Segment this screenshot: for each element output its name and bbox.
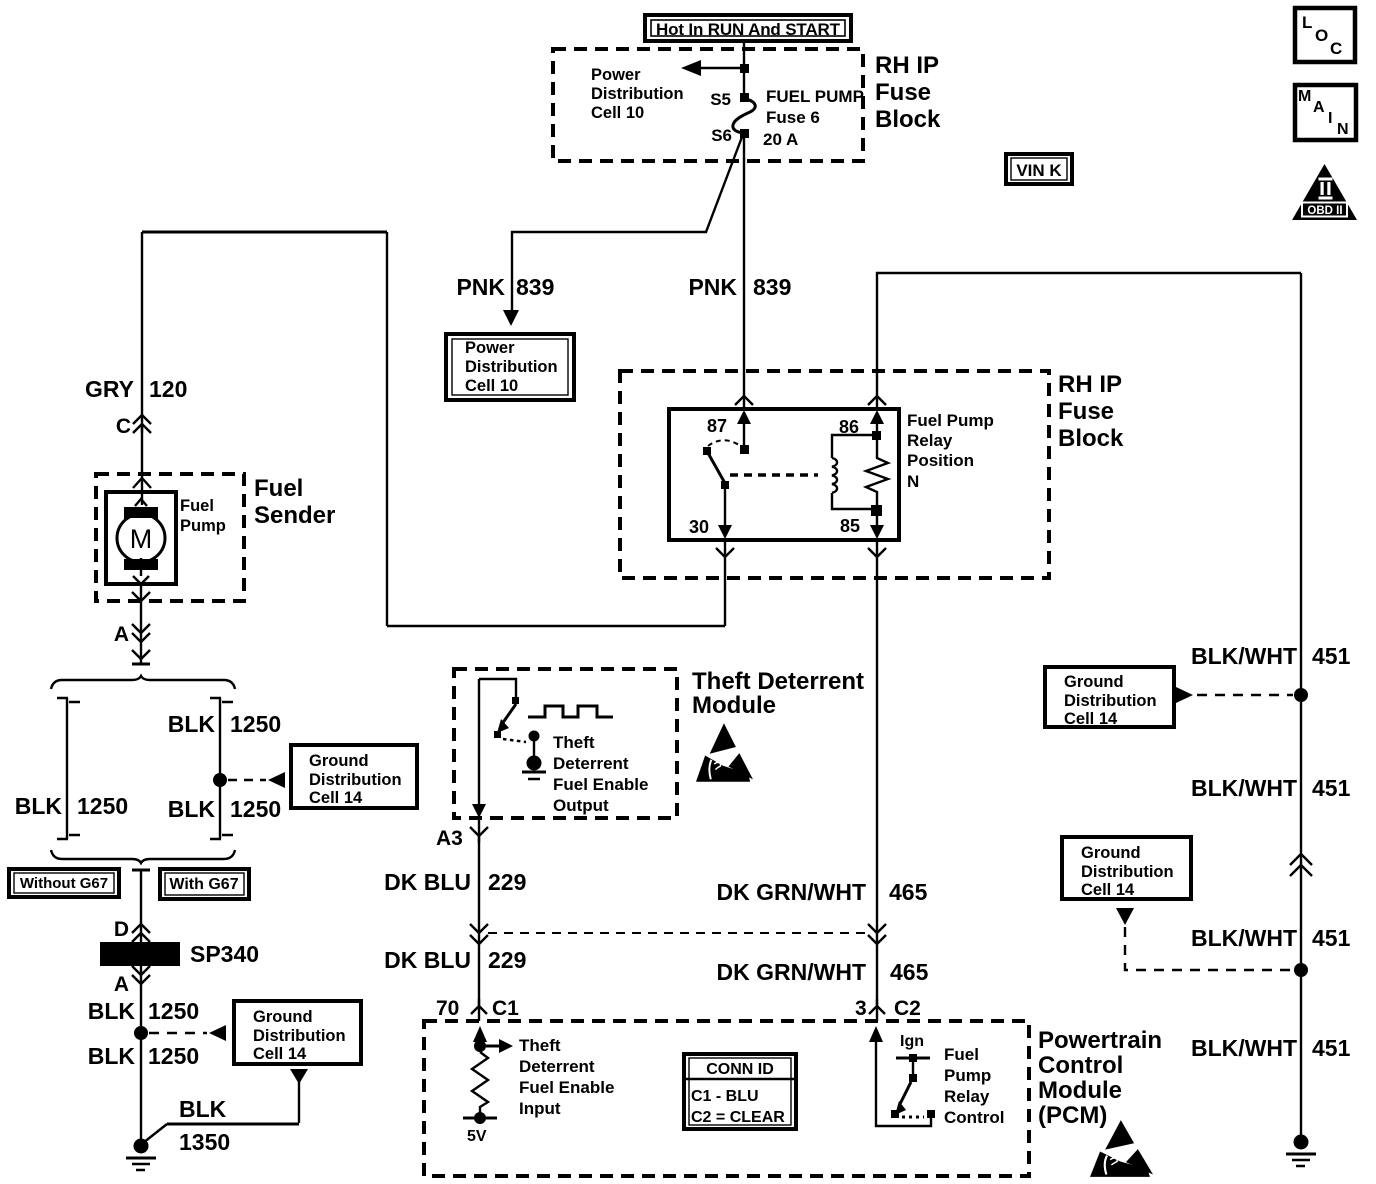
wire BLK 1250 to ground xyxy=(140,966,142,1143)
svg-text:BLK: BLK xyxy=(88,998,136,1024)
svg-text:BLK/WHT: BLK/WHT xyxy=(1191,775,1297,801)
svg-text:S6: S6 xyxy=(711,126,732,145)
fuel sender dashed box xyxy=(96,474,244,601)
label Powertrain Control Module (PCM) xyxy=(1038,1027,1162,1129)
wire from relay 30 to fuel pump (down, across) xyxy=(387,232,725,626)
svg-text:Module: Module xyxy=(1038,1077,1122,1104)
svg-text:1250: 1250 xyxy=(230,711,281,737)
svg-text:N: N xyxy=(1337,121,1349,138)
connector chevron into fuel sender xyxy=(133,478,151,488)
svg-text:DK GRN/WHT: DK GRN/WHT xyxy=(717,959,866,985)
svg-text:Fuel: Fuel xyxy=(254,475,303,502)
svg-text:PNK: PNK xyxy=(688,274,737,300)
svg-text:229: 229 xyxy=(488,947,526,973)
label BLK 1250 (right top) xyxy=(168,711,281,737)
label DK GRN/WHT 465 (upper) xyxy=(717,879,928,905)
wire fuel pump ground lead xyxy=(140,584,142,660)
relay mechanical link (dashed) xyxy=(730,473,818,477)
svg-text:C1 - BLU: C1 - BLU xyxy=(691,1088,759,1105)
label PNK 839 (left) xyxy=(456,274,554,300)
svg-text:1250: 1250 xyxy=(230,796,281,822)
svg-text:Cell 14: Cell 14 xyxy=(253,1045,307,1063)
reference box Ground Distribution Cell 14 (right upper) xyxy=(1045,667,1174,728)
theft deterrent output switch xyxy=(479,679,546,779)
option box Without G67 xyxy=(9,869,119,897)
ground G401 (left) xyxy=(126,1139,156,1171)
label Theft Deterrent Fuel Enable Input xyxy=(519,1036,614,1118)
svg-text:Fuel Pump: Fuel Pump xyxy=(907,411,994,430)
svg-text:BLK: BLK xyxy=(179,1096,227,1122)
label BLK/WHT 451 (4) xyxy=(1191,1035,1351,1061)
svg-text:Fuse: Fuse xyxy=(1058,398,1114,425)
svg-text:Pump: Pump xyxy=(180,517,226,535)
svg-text:A3: A3 xyxy=(436,827,463,850)
icon LOC xyxy=(1295,8,1355,62)
svg-text:BLK/WHT: BLK/WHT xyxy=(1191,1035,1297,1061)
svg-text:1250: 1250 xyxy=(148,998,199,1024)
connector C xyxy=(116,415,151,438)
box VIN K xyxy=(1006,154,1072,184)
label BLK/WHT 451 (3) xyxy=(1191,925,1351,951)
label Theft Deterrent Fuel Enable Output xyxy=(553,733,648,815)
svg-text:1250: 1250 xyxy=(77,793,128,819)
svg-text:Distribution: Distribution xyxy=(1064,692,1157,710)
label RH IP Fuse Block (relay) xyxy=(1058,371,1124,452)
svg-text:Relay: Relay xyxy=(944,1087,990,1106)
svg-text:DK BLU: DK BLU xyxy=(384,869,471,895)
alternative wire bracket bottom xyxy=(51,850,235,870)
relay coil xyxy=(832,435,877,509)
svg-text:Relay: Relay xyxy=(907,431,953,450)
off-page dashed link to Ground Distribution Cell 14 (right upper) xyxy=(1176,687,1293,703)
wire BLK 1350 from Cell 14 box xyxy=(143,1069,308,1143)
svg-text:O: O xyxy=(1315,26,1328,45)
option box With G67 xyxy=(160,869,249,899)
svg-text:1350: 1350 xyxy=(179,1129,230,1155)
svg-text:Distribution: Distribution xyxy=(591,85,684,103)
svg-text:Position: Position xyxy=(907,451,974,470)
label BLK 1250 (left) xyxy=(15,793,128,819)
svg-text:Hot In RUN And START: Hot In RUN And START xyxy=(656,20,841,39)
label GRY 120 xyxy=(85,376,187,402)
splice S5 xyxy=(710,90,749,109)
wire BLK/WHT 451 right column xyxy=(1300,273,1302,1142)
svg-text:FUEL PUMP: FUEL PUMP xyxy=(766,87,864,106)
relay pin 30 xyxy=(689,481,732,539)
svg-text:Distribution: Distribution xyxy=(253,1027,346,1045)
wire top-left horizontal (relay 30 feed to fuel pump) xyxy=(142,231,387,234)
svg-text:451: 451 xyxy=(1312,1035,1351,1061)
icon OBD II triangle xyxy=(1292,164,1357,220)
svg-text:BLK: BLK xyxy=(168,796,216,822)
ESD logo (PCM) xyxy=(1090,1120,1153,1177)
svg-text:DK GRN/WHT: DK GRN/WHT xyxy=(717,879,866,905)
svg-text:229: 229 xyxy=(488,869,526,895)
title box Hot In RUN And START xyxy=(645,15,851,41)
svg-text:Cell 14: Cell 14 xyxy=(309,789,363,807)
connector chevron relay 87 top xyxy=(735,396,753,405)
svg-text:RH IP: RH IP xyxy=(1058,371,1122,398)
svg-text:1250: 1250 xyxy=(148,1043,199,1069)
svg-text:Sender: Sender xyxy=(254,502,335,529)
label Theft Deterrent Module xyxy=(692,668,864,719)
connector pin 70 C1 xyxy=(436,997,519,1020)
svg-text:451: 451 xyxy=(1312,775,1351,801)
label BLK 1250 (below junction) xyxy=(88,1043,199,1069)
label BLK 1350 xyxy=(179,1096,230,1155)
wire PNK 839 (fuse to relay 87) xyxy=(743,133,745,408)
svg-text:120: 120 xyxy=(149,376,187,402)
svg-text:Fuse 6: Fuse 6 xyxy=(766,108,820,127)
label BLK 1250 (above junction) xyxy=(88,998,199,1024)
PCM theft deterrent input circuit xyxy=(463,1026,513,1145)
connector A (below SP340) xyxy=(114,966,150,996)
svg-text:Theft: Theft xyxy=(553,733,595,752)
theft deterrent module dashed box xyxy=(454,669,677,818)
fuse F6 FUEL PUMP 20 A xyxy=(733,87,864,149)
svg-text:Fuel Enable: Fuel Enable xyxy=(553,775,648,794)
svg-text:839: 839 xyxy=(753,274,791,300)
relay coil resistor xyxy=(866,440,888,507)
connector chevron relay 86 top xyxy=(868,396,886,405)
svg-text:Block: Block xyxy=(875,106,941,133)
svg-text:Distribution: Distribution xyxy=(309,771,402,789)
svg-text:839: 839 xyxy=(516,274,554,300)
wire left vertical GRY 120 xyxy=(141,232,143,505)
off-page dashed link to Ground Distribution Cell 14 (lower) xyxy=(149,1025,226,1041)
connector pin 3 C2 xyxy=(855,997,921,1020)
CONN ID box xyxy=(684,1054,796,1129)
label BLK/WHT 451 (2) xyxy=(1191,775,1351,801)
svg-text:C2 = CLEAR: C2 = CLEAR xyxy=(691,1109,785,1126)
relay pin 85 xyxy=(840,505,884,539)
label RH IP Fuse Block (top) xyxy=(875,52,941,133)
svg-text:3: 3 xyxy=(855,997,867,1020)
svg-text:GRY: GRY xyxy=(85,376,134,402)
fuel pump motor M xyxy=(106,492,226,584)
connector chevron out of fuel sender xyxy=(132,592,150,601)
label Power Distribution Cell 10 (inside fuse block) xyxy=(591,66,684,122)
svg-text:Power: Power xyxy=(591,66,641,84)
svg-text:A: A xyxy=(1313,99,1325,116)
connector chevron relay 85 bottom xyxy=(868,548,886,557)
svg-text:BLK/WHT: BLK/WHT xyxy=(1191,925,1297,951)
svg-text:L: L xyxy=(1302,13,1312,32)
svg-text:C: C xyxy=(116,415,131,438)
svg-text:Fuel: Fuel xyxy=(944,1045,979,1064)
wire relay 86 up and across to right xyxy=(877,273,1301,409)
label Fuel Pump Relay Control xyxy=(944,1045,1004,1127)
label BLK 1250 (right bottom) xyxy=(168,796,281,822)
svg-text:Power: Power xyxy=(465,339,515,357)
svg-text:Ground: Ground xyxy=(1064,673,1124,691)
svg-text:451: 451 xyxy=(1312,643,1351,669)
svg-text:Output: Output xyxy=(553,796,609,815)
label DK BLU 229 (upper) xyxy=(384,869,526,895)
svg-text:Cell 14: Cell 14 xyxy=(1064,710,1118,728)
svg-text:465: 465 xyxy=(890,959,929,985)
reference box Ground Distribution Cell 14 (upper left) xyxy=(291,745,417,808)
svg-text:Module: Module xyxy=(692,692,776,719)
fuel pump relay box xyxy=(669,409,899,540)
svg-text:Fuel: Fuel xyxy=(180,497,214,515)
PCM dashed box xyxy=(424,1021,1029,1176)
svg-text:Deterrent: Deterrent xyxy=(519,1057,595,1076)
ground (right column) xyxy=(1286,1135,1316,1167)
svg-text:BLK: BLK xyxy=(15,793,63,819)
wire from brace to splice SP340 xyxy=(140,870,142,942)
svg-text:Cell 14: Cell 14 xyxy=(1081,881,1135,899)
svg-text:I: I xyxy=(1328,110,1332,127)
connector A (fuel sender) xyxy=(114,623,150,663)
connector on right column xyxy=(1290,854,1312,876)
svg-text:PNK: PNK xyxy=(456,274,505,300)
wire DK GRN/WHT 465 (relay 85 to PCM) xyxy=(876,540,878,1021)
svg-text:A: A xyxy=(114,973,129,996)
svg-text:BLK: BLK xyxy=(88,1043,136,1069)
svg-text:CONN ID: CONN ID xyxy=(706,1061,774,1078)
svg-text:VIN K: VIN K xyxy=(1016,161,1062,180)
svg-text:N: N xyxy=(907,472,919,491)
reference box Ground Distribution Cell 14 (right lower) xyxy=(1062,837,1191,899)
svg-text:Ground: Ground xyxy=(253,1008,313,1026)
PCM fuel pump relay control driver xyxy=(869,1026,935,1126)
svg-text:BLK/WHT: BLK/WHT xyxy=(1191,643,1297,669)
svg-text:S5: S5 xyxy=(710,90,731,109)
wire DK BLU 229 from TDM pin A3 xyxy=(472,679,486,1021)
junction right column (2) xyxy=(1294,963,1308,977)
svg-text:C: C xyxy=(1330,39,1342,58)
icon MAIN xyxy=(1295,85,1356,140)
svg-text:A: A xyxy=(114,623,129,646)
svg-text:Block: Block xyxy=(1058,425,1124,452)
connector D xyxy=(114,918,150,942)
svg-text:M: M xyxy=(130,524,153,554)
svg-text:5V: 5V xyxy=(467,1128,487,1145)
svg-text:RH IP: RH IP xyxy=(875,52,939,79)
svg-text:Input: Input xyxy=(519,1099,561,1118)
relay pin 87 xyxy=(707,410,751,454)
svg-text:DK BLU: DK BLU xyxy=(384,947,471,973)
off-page arrow to Power Distribution Cell 10 (left) xyxy=(681,60,749,76)
splice SP340 xyxy=(100,941,259,967)
svg-text:Fuel Enable: Fuel Enable xyxy=(519,1078,614,1097)
alternative wire bracket top xyxy=(51,664,235,689)
connector chevron relay 30 bottom xyxy=(716,548,734,557)
svg-text:Without G67: Without G67 xyxy=(20,875,108,892)
off-page dashed link from Cell 14 (right lower) xyxy=(1116,908,1293,970)
svg-text:(PCM): (PCM) xyxy=(1038,1102,1107,1129)
label BLK/WHT 451 (1) xyxy=(1191,643,1351,669)
in-line connector (dashed) between A3 and PCM xyxy=(470,924,886,944)
svg-text:SP340: SP340 xyxy=(190,941,259,967)
svg-text:70: 70 xyxy=(436,997,459,1020)
svg-text:With G67: With G67 xyxy=(169,876,238,893)
svg-text:BLK: BLK xyxy=(168,711,216,737)
svg-text:Ign: Ign xyxy=(900,1033,924,1050)
svg-text:465: 465 xyxy=(889,879,928,905)
off-page dashed link to Ground Distribution Cell 14 xyxy=(228,772,285,788)
theft deterrent enable waveform xyxy=(528,706,613,717)
svg-text:Ground: Ground xyxy=(1081,844,1141,862)
label Fuel Sender xyxy=(254,475,335,529)
reference box Power Distribution Cell 10 xyxy=(446,334,574,400)
svg-text:451: 451 xyxy=(1312,925,1351,951)
label PNK 839 (right) xyxy=(688,274,791,300)
svg-text:Pump: Pump xyxy=(944,1066,991,1085)
svg-text:OBD II: OBD II xyxy=(1307,205,1342,217)
wire BLK 1250 without G67 (left alternative) xyxy=(57,698,80,839)
svg-text:Cell 10: Cell 10 xyxy=(591,104,644,122)
splice S6 xyxy=(711,126,749,145)
junction on BLK 1250 xyxy=(134,1026,148,1040)
label Fuel Pump Relay Position N xyxy=(907,411,994,491)
reference box Ground Distribution Cell 14 (lower left) xyxy=(234,1001,361,1064)
relay pin 86 xyxy=(839,410,884,440)
svg-text:85: 85 xyxy=(840,516,860,536)
svg-text:C2: C2 xyxy=(894,997,921,1020)
ESD logo (theft deterrent module) xyxy=(696,723,753,782)
RH IP fuse block dashed box (relay) xyxy=(620,371,1049,578)
svg-text:Distribution: Distribution xyxy=(1081,863,1174,881)
wire from Hot box to fuse xyxy=(743,41,745,97)
svg-text:M: M xyxy=(1298,88,1311,105)
svg-text:Fuse: Fuse xyxy=(875,79,931,106)
RH IP fuse block dashed box (top) xyxy=(553,49,863,161)
relay armature and contact xyxy=(703,440,742,485)
connector A3 xyxy=(436,827,488,850)
wire branch S6 to Power Distribution (diagonal + horizontal + down arrow) xyxy=(503,137,742,326)
label DK BLU 229 (lower) xyxy=(384,947,526,973)
svg-text:Cell 10: Cell 10 xyxy=(465,377,518,395)
svg-text:Control: Control xyxy=(944,1108,1004,1127)
svg-text:C1: C1 xyxy=(492,997,519,1020)
svg-text:20 A: 20 A xyxy=(763,130,798,149)
label DK GRN/WHT 465 (lower) xyxy=(717,959,929,985)
svg-text:30: 30 xyxy=(689,517,709,537)
junction on BLK 1250 (with G67) xyxy=(213,773,227,787)
svg-text:D: D xyxy=(114,918,129,941)
svg-text:Distribution: Distribution xyxy=(465,358,558,376)
svg-text:Control: Control xyxy=(1038,1052,1123,1079)
svg-text:Theft: Theft xyxy=(519,1036,561,1055)
svg-text:Ground: Ground xyxy=(309,752,369,770)
svg-text:87: 87 xyxy=(707,416,727,436)
svg-text:Theft Deterrent: Theft Deterrent xyxy=(692,668,864,695)
wire BLK 1250 with G67 (right alternative) xyxy=(210,698,233,839)
svg-text:86: 86 xyxy=(839,417,859,437)
junction right column (1) xyxy=(1294,688,1308,702)
svg-text:Deterrent: Deterrent xyxy=(553,754,629,773)
svg-text:Powertrain: Powertrain xyxy=(1038,1027,1162,1054)
